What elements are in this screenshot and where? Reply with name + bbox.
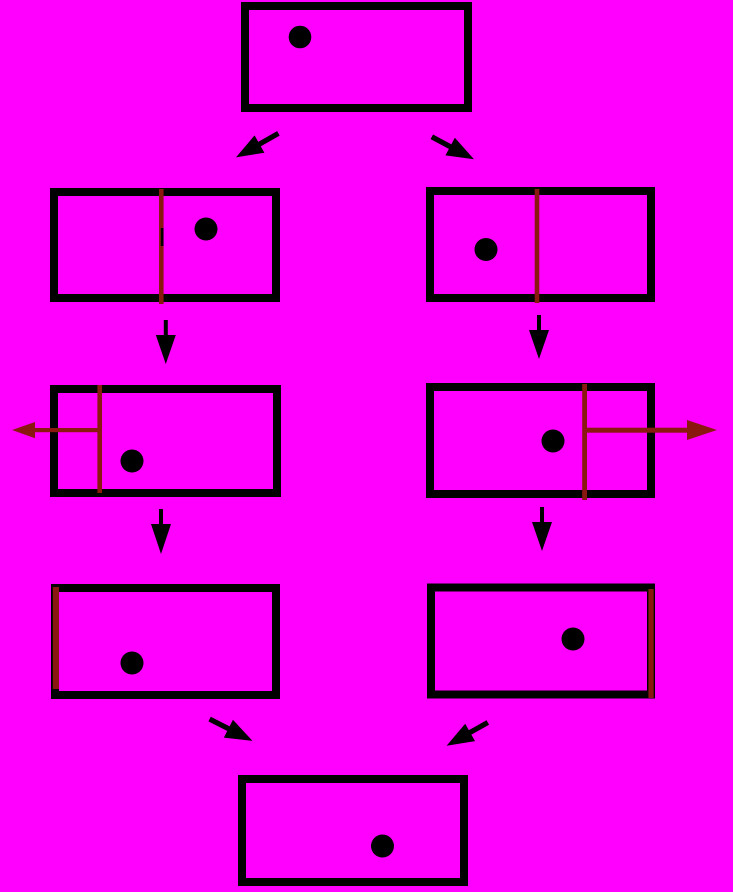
dot in B3R bbox=[542, 430, 565, 453]
box B4L (fourth row left) bbox=[55, 588, 276, 695]
divider D4L (dark red bar on left edge of B4L) bbox=[53, 587, 59, 689]
arrow A2 (B1 to B2R, down-right) bbox=[427, 128, 479, 168]
box B2L (second row left) bbox=[54, 192, 276, 298]
divider D3L (dark red line near left of B3L) bbox=[97, 385, 102, 493]
arrow A5 (B3L to B4L, down) bbox=[151, 509, 171, 554]
arrow A7 (B4L to B5, down-right) bbox=[205, 710, 257, 750]
arrow A6 (B3R to B4R, down) bbox=[532, 507, 552, 551]
dot in B2L bbox=[195, 218, 218, 241]
arrow A1 (B1 to B2L, down-left) bbox=[231, 125, 283, 166]
divider D2L (dark red midline of B2L) bbox=[159, 189, 164, 304]
arrow A4 (B2R to B3R, down) bbox=[529, 315, 549, 359]
dot in B5 bbox=[371, 835, 394, 858]
box B4R (fourth row right) bbox=[431, 588, 651, 695]
divider D3R (dark red line near right of B3R) bbox=[582, 384, 587, 500]
red arrow RA-L (points left out of B3L) bbox=[12, 422, 102, 438]
arrow A3 (B2L to B3L, down) bbox=[156, 320, 176, 364]
arrow A8 (B4R to B5, down-left) bbox=[442, 714, 493, 755]
dot in B4L bbox=[121, 652, 144, 675]
divider D4R (dark red bar on right edge of B4R) bbox=[648, 589, 653, 698]
box B5 (bottom array) bbox=[242, 779, 464, 882]
dot in B1 bbox=[289, 26, 312, 49]
dot in B4R bbox=[562, 628, 585, 651]
red arrow RA-R (points right out of B3R) bbox=[585, 420, 718, 440]
box B1 (top array) bbox=[245, 6, 468, 108]
tick on D2L (small black mark) bbox=[161, 228, 164, 246]
box B2R (second row right) bbox=[430, 191, 651, 298]
divider D2R (dark red midline of B2R) bbox=[535, 189, 540, 303]
box B3L (third row left) bbox=[54, 389, 277, 493]
dot in B3L bbox=[121, 450, 144, 473]
box B3R (third row right) bbox=[430, 387, 651, 494]
dot in B2R bbox=[475, 238, 498, 261]
